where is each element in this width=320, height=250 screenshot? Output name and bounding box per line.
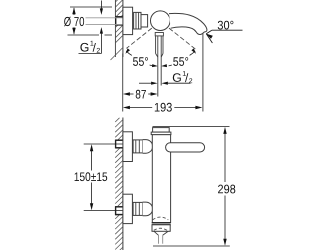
angle arrows 55 left — [125, 48, 157, 67]
text 55 right — [173, 57, 188, 66]
dimension 150±15 — [75, 144, 123, 211]
upper escutcheon (side view) — [123, 132, 132, 162]
upper union nut — [133, 140, 143, 153]
dimension 193 — [123, 103, 202, 112]
lower union nut — [133, 202, 143, 215]
dimension 298 — [153, 127, 236, 246]
label G1/2 inlet — [79, 1, 104, 54]
outlet leader lines — [158, 66, 161, 96]
ring band — [152, 223, 171, 225]
text 55 left — [133, 57, 148, 66]
angle arrows 55 right — [161, 48, 196, 67]
hidden diverter dashed arc lower — [154, 228, 167, 230]
bottom flange — [152, 225, 170, 232]
label G1/2 outlet — [139, 71, 192, 85]
spout (top view) — [169, 13, 207, 34]
body circle (top view) — [151, 11, 171, 31]
body (side view) — [151, 128, 171, 223]
supply pipe lines (gray) — [86, 18, 124, 25]
dimension Ø70 — [64, 7, 112, 35]
extension line left (wall face) — [122, 54, 124, 112]
supply pipe in wall (top view) — [115, 16, 124, 25]
hidden diverter dashed arc upper — [153, 217, 169, 220]
upper union body — [143, 140, 153, 154]
upper supply pipe in wall — [115, 140, 123, 149]
shower outlet stub — [159, 235, 163, 243]
extension line right (spout tip) — [202, 33, 204, 112]
wall (side view) — [115, 118, 123, 250]
angle 30 detail — [206, 21, 243, 43]
lever swung position dashed (right) — [169, 28, 196, 49]
spout (side view) — [166, 143, 205, 152]
spout inner edge line — [192, 28, 196, 32]
union nut (top view) — [134, 12, 141, 29]
adapter (top view) — [141, 15, 148, 27]
lower escutcheon (side view) — [123, 194, 132, 223]
lower supply pipe in wall — [115, 206, 123, 215]
wall (top view) — [111, 0, 123, 60]
lever (top view) — [155, 33, 163, 67]
outlet taper — [154, 231, 168, 235]
escutcheon (top view) — [123, 7, 133, 34]
lever swung position dashed (left) — [126, 28, 151, 48]
lower union body — [143, 202, 153, 216]
dimension 87 — [123, 90, 158, 99]
